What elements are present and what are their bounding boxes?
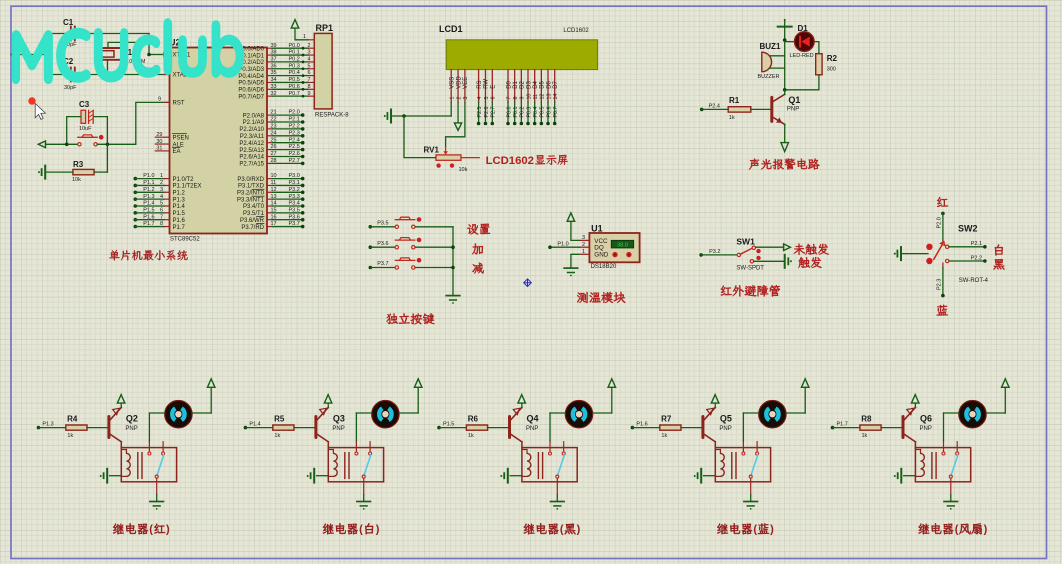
svg-text:P1.3: P1.3 [42,421,53,427]
svg-text:1k: 1k [729,115,735,121]
svg-text:P0.6: P0.6 [289,84,300,90]
svg-text:(: ( [753,524,757,536]
svg-text:1k: 1k [862,433,868,439]
caption: relay (红) [113,523,148,534]
crystal X1 [97,47,119,49]
svg-text:9: 9 [307,91,310,97]
relay contacts and blade [148,441,150,452]
load motor/lamp [165,401,192,428]
svg-text:P3.7: P3.7 [289,221,300,227]
P0 port wires chip to RP1 [267,47,273,49]
wire caps vertical bus [45,34,47,75]
svg-text:PNP: PNP [920,426,932,432]
relay RL (R5) [328,448,383,482]
svg-text:D5: D5 [540,80,546,88]
VSS wire to ground [450,102,452,116]
svg-text:27: 27 [271,151,277,157]
load motor/lamp [565,401,592,428]
svg-text:Q3: Q3 [333,413,345,423]
svg-text:1k: 1k [274,433,280,439]
svg-text:P2.5/A13: P2.5/A13 [239,148,264,154]
svg-text:11: 11 [533,94,539,100]
svg-text:P2.0/A8: P2.0/A8 [243,113,265,119]
wire emitter to ground arrow [784,124,786,142]
push button K3 (P3.7) [369,266,373,270]
svg-text:(: ( [955,524,959,536]
wire relay NO contact to load [355,413,357,441]
svg-text:P3.4/T0: P3.4/T0 [243,204,265,210]
svg-text:P2.0: P2.0 [289,110,300,116]
collector wire into relay [317,434,328,442]
transistor Q6 PNP [902,417,905,438]
svg-text:30pF: 30pF [64,85,77,91]
wire crystal bottom to XTAL2 net [107,60,109,75]
svg-text:P2.4: P2.4 [709,104,720,110]
relay contacts and blade [355,441,357,452]
svg-text:LCD1602: LCD1602 [486,155,534,167]
svg-text:26: 26 [271,144,277,150]
wire C1 to XTAL1 node [75,33,149,35]
svg-text:P3.2/INT0: P3.2/INT0 [237,191,265,197]
svg-text:R2: R2 [827,54,838,63]
svg-text:D6: D6 [546,80,552,88]
keys common bus to ground [452,227,454,296]
svg-text:37: 37 [271,57,277,63]
load motor/lamp [759,401,786,428]
relay driver input P1.6 [631,426,635,430]
svg-text:P3.6: P3.6 [377,241,388,247]
relay RL (R8) [915,448,970,482]
XTAL2 RST pin stubs [164,74,170,76]
load motor/lamp [372,401,399,428]
wire relay NO contact to load [549,413,551,441]
svg-text:DQ: DQ [594,245,604,252]
svg-text:C3: C3 [79,100,90,109]
svg-text:P3.2: P3.2 [289,187,300,193]
wire load to power arrow [399,412,418,414]
svg-text:P3.5/T1: P3.5/T1 [243,211,265,217]
svg-text:): ) [577,524,581,536]
transistor Q5 PNP [701,417,704,438]
caption: blue [937,305,948,316]
svg-text:VEE: VEE [463,77,469,89]
VDD power terminal [457,102,459,122]
svg-text:9: 9 [158,97,161,103]
svg-text:1: 1 [582,249,585,255]
svg-text:P2.4/A12: P2.4/A12 [239,141,264,147]
push button K2 (P3.6) [369,245,373,249]
svg-text:SW-SPDT: SW-SPDT [736,265,764,271]
svg-text:6: 6 [160,207,163,213]
svg-text:P1.7: P1.7 [837,421,848,427]
resistor R8 [860,425,881,430]
svg-text:P1.4: P1.4 [249,421,260,427]
svg-text:P2.3: P2.3 [937,279,943,290]
svg-text:P3.3: P3.3 [289,194,300,200]
SW1 up throw to power arrow right [756,246,784,248]
P3 port wires [267,178,273,180]
svg-text:P3.1/TXD: P3.1/TXD [238,184,265,190]
caption: not triggered [794,244,829,255]
wire button to RST [97,143,136,145]
svg-text:P2.6: P2.6 [484,107,490,118]
svg-text:P0.0: P0.0 [506,107,512,118]
relay common to ground [556,478,558,495]
svg-text:28: 28 [271,158,277,164]
svg-text:P1.7: P1.7 [173,225,186,231]
svg-text:P0.1: P0.1 [513,107,519,118]
caption: relay (黑) [524,523,559,534]
svg-text:RV1: RV1 [424,146,440,155]
svg-text:P2.1: P2.1 [289,117,300,123]
svg-text:10k: 10k [72,177,81,183]
svg-text:P3.1: P3.1 [289,180,300,186]
wire C3 right [93,117,107,145]
svg-text:7: 7 [307,77,310,83]
svg-text:P2.2/A10: P2.2/A10 [239,127,264,133]
svg-text:P1.2: P1.2 [143,187,154,193]
wire XTAL2 [75,74,169,76]
svg-text:8: 8 [307,84,310,90]
svg-text:LCD1602: LCD1602 [563,28,589,34]
caption: black [994,259,1005,270]
svg-text:12: 12 [540,94,546,100]
svg-text:SW2: SW2 [958,224,978,234]
relay driver input P1.5 [437,426,441,430]
svg-text:(: ( [560,524,564,536]
svg-text:P1.6: P1.6 [636,421,647,427]
transistor Q2 PNP [107,417,110,438]
capacitor C2 [70,68,72,82]
input resistor R1 [700,108,704,112]
SW1 down throw to ground bar [754,260,785,262]
svg-text:): ) [770,524,774,536]
svg-text:RST: RST [173,101,185,107]
svg-text:R3: R3 [73,160,84,169]
reset button [78,143,81,146]
svg-text:P3.5: P3.5 [289,207,300,213]
origin marker [524,279,532,287]
svg-text:): ) [984,524,988,536]
caption: infrared obstacle sensor [721,285,780,296]
svg-text:P0.5: P0.5 [540,107,546,118]
relay driver input P1.4 [244,426,248,430]
svg-text:P1.0/T2: P1.0/T2 [173,177,195,183]
ground terminal (crystal circuit) [17,48,19,61]
svg-text:P3.0/RXD: P3.0/RXD [237,177,264,183]
svg-text:): ) [166,524,170,536]
svg-text:RS: RS [477,80,483,88]
P2 port wires [267,114,273,116]
svg-text:R7: R7 [661,415,672,424]
svg-text:P3.6/WR: P3.6/WR [240,218,265,224]
caption: MCU minimal system [109,250,187,261]
relay common to ground [363,478,365,495]
reset row wire with left arrow terminal [38,141,45,148]
wire ground net to RV1 left [404,116,436,158]
U2 left pin labels [173,53,202,231]
svg-text:13: 13 [271,194,277,200]
svg-text:STC89C52: STC89C52 [170,237,200,243]
U1 mini lcd readout [611,240,633,248]
relay contacts and blade [742,441,744,452]
svg-text:P2.7/A15: P2.7/A15 [239,162,264,168]
svg-text:P1.1: P1.1 [143,180,154,186]
svg-text:10: 10 [526,94,532,100]
caption: triggered [798,257,821,268]
svg-text:LCD1: LCD1 [439,24,463,34]
svg-text:P2.0: P2.0 [937,217,943,228]
svg-text:C1: C1 [63,18,74,27]
svg-text:P0.0: P0.0 [289,43,300,49]
svg-text:5: 5 [160,201,163,207]
power arrow above Q3 [324,395,332,404]
svg-text:D2: D2 [520,80,526,88]
caption: minus [472,263,483,274]
SW2 top position wire P2.0 [941,212,945,216]
svg-text:): ) [376,524,380,536]
svg-text:4: 4 [307,57,310,63]
svg-text:6: 6 [307,70,310,76]
wire crystal top to node A [108,42,149,48]
svg-text:39: 39 [271,43,277,49]
svg-text:P2.3: P2.3 [289,130,300,136]
svg-text:P2.1: P2.1 [971,241,982,247]
svg-text:P2.7: P2.7 [491,107,497,118]
svg-text:8: 8 [513,97,519,100]
svg-text:P1.6: P1.6 [173,218,186,224]
SW2 right contacts [946,245,949,248]
svg-text:17: 17 [271,221,277,227]
svg-text:P3.0: P3.0 [289,173,300,179]
svg-text:P1.6: P1.6 [143,214,154,220]
relay common to ground [156,478,158,495]
RP1 pin 1 to power [308,39,314,41]
svg-text:SW-ROT-4: SW-ROT-4 [959,278,989,284]
collector wire into relay [704,434,715,442]
resistor R7 [660,425,681,430]
svg-text:P0.4: P0.4 [533,107,539,118]
pin arrow into XTAL1 [163,52,169,58]
power bar terminal (alarm) [778,26,792,28]
U2 left pin stubs 29/30/31 PSEN ALE EA [155,136,169,138]
svg-text:P0.2: P0.2 [289,57,300,63]
svg-text:36: 36 [271,63,277,69]
caption: relay (白) [323,523,358,534]
svg-text:P2.2: P2.2 [971,255,982,261]
caption: temperature module [577,292,625,303]
svg-text:PNP: PNP [787,106,799,112]
svg-text:RESPACK-8: RESPACK-8 [315,113,349,119]
svg-text:BUZ1: BUZ1 [760,42,781,51]
svg-text:D1: D1 [513,80,519,88]
relay coil return to ground bar [715,475,720,477]
transistor Q3 PNP [314,417,317,438]
svg-text:14: 14 [553,94,559,100]
svg-text:P0.5/AD5: P0.5/AD5 [238,81,264,87]
wire to C2 left [46,74,71,76]
load motor/lamp [959,401,986,428]
caption: plus [472,244,483,255]
ground terminal at R3 [44,166,46,179]
svg-text:U1: U1 [591,223,603,233]
svg-text:4: 4 [160,194,163,200]
svg-text:P3.7/RD: P3.7/RD [241,225,264,231]
svg-text:11: 11 [271,180,277,186]
P1 port wires with net labels [134,177,138,181]
svg-text:P0.7: P0.7 [289,91,300,97]
svg-text:5: 5 [484,97,490,100]
svg-text:P0.4: P0.4 [289,70,300,76]
svg-text:22: 22 [271,117,277,123]
svg-text:21: 21 [271,110,277,116]
svg-text:R4: R4 [67,415,78,424]
svg-text:P1.3: P1.3 [143,194,154,200]
mouse cursor with red dot [28,97,35,104]
svg-text:38.0: 38.0 [617,243,628,249]
svg-text:38: 38 [271,50,277,56]
svg-text:P3.2: P3.2 [709,249,720,255]
svg-text:P2.2: P2.2 [289,124,300,130]
svg-text:Q6: Q6 [920,413,932,423]
svg-text:VSS: VSS [450,77,456,89]
svg-text:Q2: Q2 [126,413,138,423]
power arrow above Q4 [518,395,526,404]
svg-text:4: 4 [477,97,483,100]
wire C3 left [67,117,81,145]
svg-text:GND: GND [594,252,608,259]
caption: relay (风扇) [918,523,953,534]
relay coil return to ground bar [328,475,333,477]
svg-text:(: ( [359,524,363,536]
svg-text:P0.3: P0.3 [526,107,532,118]
svg-text:1: 1 [303,34,306,40]
svg-text:P1.0: P1.0 [143,173,154,179]
svg-text:SW1: SW1 [736,237,755,247]
wire to C1 left [46,33,71,35]
svg-text:15: 15 [271,207,277,213]
collector wire into relay [511,434,522,442]
wire load to power arrow [986,412,1005,414]
svg-text:P2.4: P2.4 [289,137,300,143]
wire load to power arrow [192,412,211,414]
svg-text:12: 12 [271,187,277,193]
relay contacts and blade [943,441,945,452]
svg-text:P1.0: P1.0 [557,242,568,248]
wire relay NO contact to load [943,413,945,441]
svg-text:P2.7: P2.7 [289,158,300,164]
svg-text:P0.6/AD6: P0.6/AD6 [238,88,264,94]
svg-text:P0.5: P0.5 [289,77,300,83]
relay common to ground [750,478,752,495]
svg-text:31: 31 [156,146,162,152]
svg-text:VDD: VDD [456,75,462,88]
svg-text:P1.5: P1.5 [143,207,154,213]
svg-text:P0.7: P0.7 [553,107,559,118]
capacitor C1 [70,27,72,41]
svg-text:1k: 1k [661,433,667,439]
svg-text:2: 2 [160,180,163,186]
caption: sound-light alarm circuit [749,159,819,170]
svg-text:P0.1: P0.1 [289,50,300,56]
svg-text:D7: D7 [553,80,559,88]
svg-text:P3.5: P3.5 [377,220,388,226]
wire VCC down [784,27,786,90]
svg-text:34: 34 [271,77,277,83]
SW2 selected dots [926,244,932,250]
wire gnd to caps node [18,54,46,56]
svg-text:(: ( [149,524,153,536]
svg-text:2: 2 [307,43,310,49]
svg-text:300: 300 [827,67,836,73]
svg-text:3: 3 [582,235,585,241]
caption: white [995,245,1003,256]
svg-text:3: 3 [307,50,310,56]
caption: set [467,224,490,235]
U1 VCC to power [571,221,580,240]
svg-text:RP1: RP1 [316,23,334,33]
svg-text:DS18B20: DS18B20 [591,264,617,270]
svg-text:10: 10 [271,173,277,179]
svg-text:P3.6: P3.6 [289,214,300,220]
svg-text:14: 14 [271,201,277,207]
wire relay NO contact to load [742,413,744,441]
relay RL (R6) [522,448,577,482]
svg-text:P2.6: P2.6 [289,151,300,157]
svg-text:D0: D0 [506,80,512,88]
svg-text:P0.4/AD4: P0.4/AD4 [238,74,264,80]
svg-text:3: 3 [463,97,469,100]
svg-text:10uF: 10uF [79,126,92,132]
svg-text:7: 7 [506,97,512,100]
svg-text:D4: D4 [533,80,539,88]
relay common to ground [950,478,952,495]
power arrow above Q6 [911,395,919,404]
U1 pins [579,239,589,241]
wire D1 to R2 [814,42,819,54]
svg-text:7: 7 [160,214,163,220]
svg-text:RW: RW [484,79,490,89]
svg-text:R8: R8 [861,415,872,424]
svg-text:P1.7: P1.7 [143,221,154,227]
svg-text:PSEN: PSEN [173,135,189,141]
resistor R4 [66,425,87,430]
SW2 lever [934,242,944,259]
svg-text:Q4: Q4 [527,413,539,423]
svg-text:P1.5: P1.5 [173,211,186,217]
svg-text:P3.3/INT1: P3.3/INT1 [237,197,265,203]
caption: relay (蓝) [717,523,752,534]
LCD control/data wires with net labels [478,102,480,123]
svg-text:D3: D3 [526,80,532,88]
svg-text:P0.3: P0.3 [289,63,300,69]
svg-text:16: 16 [271,214,277,220]
svg-text:2: 2 [582,242,585,248]
svg-text:29: 29 [156,132,162,138]
collector wire into relay [110,434,121,442]
svg-text:P2.6/A14: P2.6/A14 [239,155,264,161]
svg-text:LED-RED: LED-RED [790,53,814,59]
svg-text:1: 1 [450,97,456,100]
wire relay NO contact to load [148,413,150,441]
svg-text:Q5: Q5 [720,413,732,423]
svg-text:33: 33 [271,84,277,90]
svg-text:PNP: PNP [719,426,731,432]
wire load to power arrow [786,412,805,414]
svg-text:32: 32 [271,91,277,97]
svg-text:30: 30 [156,139,162,145]
relay coil return to ground bar [121,475,126,477]
